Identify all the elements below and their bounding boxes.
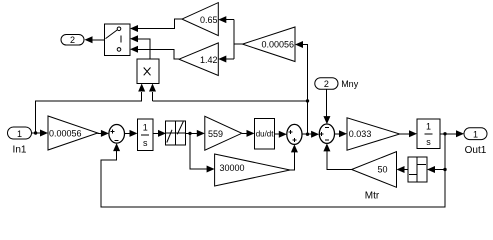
svg-text:559: 559 (208, 129, 223, 139)
svg-text:1: 1 (426, 122, 431, 132)
svg-text:1: 1 (143, 123, 148, 133)
svg-text:0.00056: 0.00056 (261, 39, 294, 49)
svg-text:1: 1 (473, 129, 478, 139)
svg-text:Mtr: Mtr (365, 190, 380, 201)
svg-text:2: 2 (324, 79, 329, 89)
svg-text:30000: 30000 (220, 163, 245, 173)
svg-text:50: 50 (377, 165, 387, 175)
svg-text:s: s (426, 137, 431, 147)
svg-text:In1: In1 (13, 145, 27, 156)
svg-text:du/dt: du/dt (256, 129, 275, 138)
svg-text:2: 2 (70, 35, 75, 45)
svg-text:Mny: Mny (341, 79, 359, 89)
svg-text:0.65: 0.65 (200, 15, 218, 25)
svg-text:1.42: 1.42 (200, 55, 218, 65)
svg-text:Out1: Out1 (465, 145, 487, 156)
svg-text:0.00056: 0.00056 (49, 128, 82, 138)
svg-text:s: s (143, 138, 148, 148)
svg-text:1: 1 (17, 129, 22, 139)
svg-text:0.033: 0.033 (349, 129, 372, 139)
